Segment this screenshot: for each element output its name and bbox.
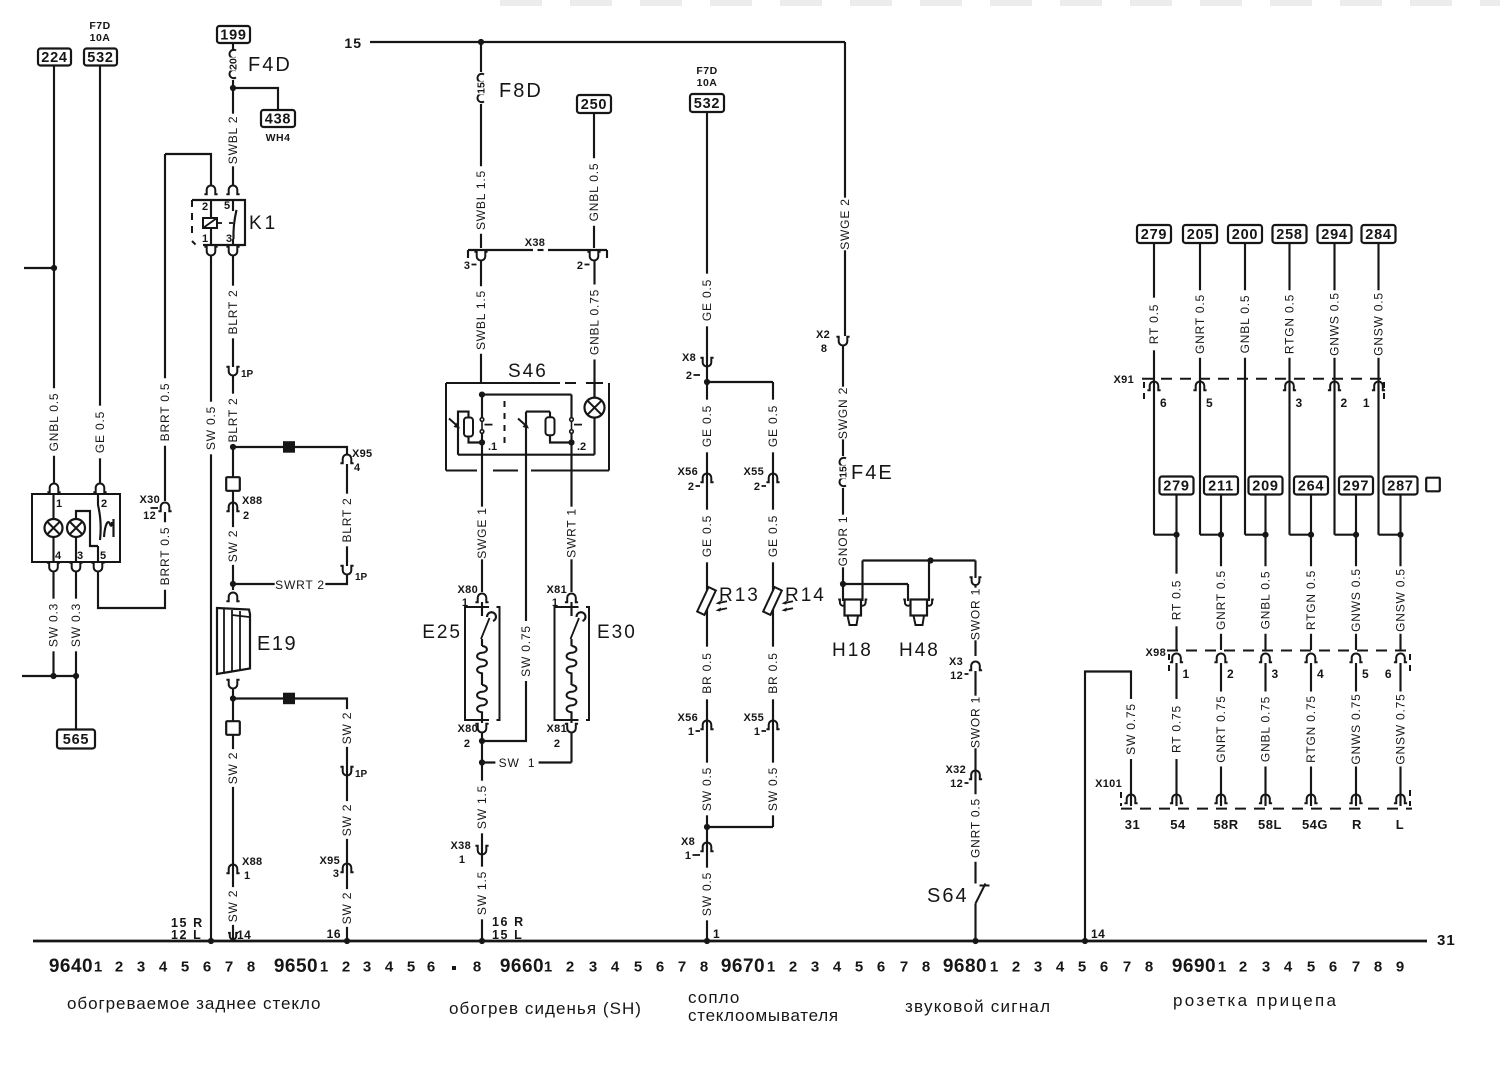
- svg-text:7: 7: [900, 959, 908, 976]
- wire SW 1 crossover: [479, 759, 485, 765]
- svg-text:SW 0.75: SW 0.75: [519, 625, 533, 677]
- wire SW 2 right branch: [346, 706, 348, 941]
- connector X8 pin 1: [700, 843, 713, 852]
- svg-text:8: 8: [247, 959, 255, 976]
- E19 top pin: [226, 592, 239, 601]
- wire GNSW 0.5 to X98 pin 6: [1399, 535, 1401, 650]
- wire BR 0.5 left: [700, 647, 714, 700]
- wire from F4D junction: [232, 80, 234, 118]
- connector X91 pin 1: [1372, 381, 1385, 390]
- wire SW 0.3 right: [75, 571, 77, 676]
- S46 indicator lamp: [593, 383, 595, 398]
- connector X80 pin 1: [475, 594, 488, 603]
- wire RT 0.75 to X101: [1175, 663, 1177, 806]
- svg-text:GNRT 0.5: GNRT 0.5: [1214, 570, 1228, 630]
- svg-text:5: 5: [1078, 959, 1086, 976]
- S46 switch 2 contact: [570, 395, 572, 418]
- terminal box 297 second row: [1339, 477, 1373, 495]
- svg-text:SWBL 1.5: SWBL 1.5: [474, 290, 488, 350]
- connector X101 pin col 3: [1259, 794, 1272, 803]
- svg-text:6: 6: [427, 959, 435, 976]
- wire SWBL 1.5 to S46: [480, 261, 482, 383]
- wire SWRT 1 from S46: [570, 471, 572, 593]
- svg-text:SWOR 1: SWOR 1: [969, 696, 983, 748]
- ground terminal box 565: [57, 730, 95, 749]
- svg-text:9690: 9690: [1172, 956, 1216, 977]
- svg-text:X81: X81: [547, 584, 567, 596]
- svg-text:.1: .1: [488, 441, 497, 453]
- svg-text:58R: 58R: [1213, 817, 1238, 832]
- svg-text:7: 7: [225, 959, 233, 976]
- svg-text:14: 14: [237, 928, 251, 942]
- svg-text:E30: E30: [597, 622, 637, 643]
- wire SW 0.75 from S46 middle: [482, 471, 526, 742]
- svg-text:9650: 9650: [274, 956, 318, 977]
- svg-text:K1: K1: [249, 213, 278, 234]
- wire label SW 2 below square: [226, 749, 240, 787]
- wire SWOR 1 lower: [974, 671, 976, 884]
- wire SWOR 1 upper: [974, 561, 976, 579]
- S46 middle output wire: [525, 412, 527, 471]
- wire corner to relay K1: [165, 154, 211, 186]
- svg-text:532: 532: [694, 96, 721, 112]
- wire GNBL 0.5 from box 200: [1244, 243, 1246, 535]
- svg-text:X30: X30: [140, 494, 160, 506]
- svg-text:GNOR 1: GNOR 1: [836, 516, 850, 567]
- svg-text:1: 1: [990, 959, 998, 976]
- connector X81 pin 2: [565, 724, 578, 733]
- svg-text:SW 1.5: SW 1.5: [475, 785, 489, 829]
- junction below E19: [230, 695, 236, 701]
- connector X91 pin 6: [1147, 381, 1160, 390]
- svg-text:8: 8: [821, 343, 827, 355]
- wire splice to X95/4: [295, 447, 347, 455]
- svg-text:стеклоомывателя: стеклоомывателя: [688, 1006, 839, 1025]
- connector X91 pin 2: [1328, 381, 1341, 390]
- E19 bottom pin: [226, 680, 239, 689]
- svg-text:GNWS 0.5: GNWS 0.5: [1349, 568, 1363, 632]
- svg-text:3: 3: [363, 959, 371, 976]
- svg-text:8: 8: [700, 959, 708, 976]
- connector X55 pin 1: [766, 721, 779, 730]
- connector X38 pin 3: [474, 252, 487, 261]
- wire SW 1.5 below junction: [475, 781, 489, 834]
- connector 1P right: [340, 566, 353, 575]
- svg-text:R13: R13: [719, 585, 760, 606]
- svg-text:4: 4: [833, 959, 842, 976]
- connector X38 line: [468, 249, 533, 251]
- E25 heater coils: [481, 639, 483, 646]
- junction washer split: [704, 379, 710, 385]
- terminal box 438: [261, 110, 295, 127]
- svg-text:211: 211: [1208, 479, 1234, 495]
- svg-text:SW 2: SW 2: [226, 752, 240, 785]
- svg-text:15: 15: [476, 82, 488, 94]
- svg-text:10A: 10A: [90, 32, 111, 44]
- svg-text:2: 2: [688, 481, 694, 493]
- svg-text:31: 31: [1125, 817, 1140, 832]
- svg-text:SW 0.5: SW 0.5: [700, 767, 714, 811]
- switch contact arm: [98, 494, 101, 540]
- svg-text:205: 205: [1187, 227, 1214, 243]
- pin 3 connector: [69, 563, 82, 572]
- svg-text:9640: 9640: [49, 956, 93, 977]
- svg-text:SW 0.5: SW 0.5: [204, 406, 218, 450]
- svg-text:1: 1: [688, 726, 694, 738]
- svg-text:X56: X56: [678, 466, 698, 478]
- svg-text:438: 438: [265, 112, 292, 128]
- ground collector wire: [22, 675, 76, 677]
- svg-text:200: 200: [1232, 227, 1259, 243]
- svg-text:8: 8: [473, 959, 481, 976]
- svg-text:GE 0.5: GE 0.5: [700, 515, 714, 557]
- wire GE 0.5 to R13: [700, 510, 714, 563]
- connector X38 pin 1: [475, 846, 488, 855]
- terminal box 200 top row: [1228, 225, 1262, 243]
- svg-text:X80: X80: [458, 584, 478, 596]
- svg-text:S46: S46: [508, 361, 548, 382]
- svg-text:RT 0.5: RT 0.5: [1170, 580, 1184, 620]
- svg-text:F7D: F7D: [696, 65, 717, 77]
- pin 5 connector: [91, 563, 104, 572]
- svg-text:9680: 9680: [943, 956, 987, 977]
- svg-text:250: 250: [581, 97, 608, 113]
- seat heater element E25 box: [465, 607, 500, 720]
- svg-text:SW 2: SW 2: [340, 712, 354, 745]
- svg-text:RTGN 0.5: RTGN 0.5: [1304, 570, 1318, 630]
- terminal box 209 second row: [1249, 477, 1283, 495]
- connector X98 pin 4: [1304, 653, 1317, 662]
- svg-text:199: 199: [220, 28, 247, 44]
- svg-text:2: 2: [1341, 396, 1348, 410]
- svg-text:E25: E25: [422, 622, 462, 643]
- svg-text:BRRT 0.5: BRRT 0.5: [158, 527, 172, 586]
- connector X95 pin 4: [340, 455, 353, 464]
- svg-text:SWBL 1.5: SWBL 1.5: [474, 170, 488, 230]
- wire SWRT 2: [236, 575, 347, 584]
- connector X3 pin 12: [969, 662, 982, 671]
- svg-text:X8: X8: [681, 836, 695, 848]
- svg-text:F4E: F4E: [851, 462, 894, 484]
- wire SWGE 1 from S46: [481, 471, 483, 593]
- wire GNWS 0.75 to X101: [1355, 663, 1357, 806]
- svg-text:GNSW 0.5: GNSW 0.5: [1372, 292, 1386, 356]
- svg-text:BRRT 0.5: BRRT 0.5: [158, 383, 172, 442]
- wire GNBL 0.5 to X38: [593, 113, 595, 248]
- heated rear window switch unit box: [32, 494, 120, 562]
- svg-text:X88: X88: [242, 856, 262, 868]
- wire label GE 0.5 left: [700, 400, 714, 453]
- terminal box 279 second row: [1160, 477, 1194, 495]
- svg-text:S64: S64: [927, 885, 969, 907]
- wire SW 0.5 to bus: [700, 868, 714, 921]
- svg-text:1: 1: [754, 726, 760, 738]
- spare connector square: [1426, 478, 1440, 492]
- svg-text:3: 3: [1272, 667, 1279, 681]
- svg-text:сопло: сопло: [688, 988, 740, 1007]
- svg-text:X38: X38: [451, 840, 471, 852]
- svg-text:SW 2: SW 2: [226, 530, 240, 563]
- svg-text:15: 15: [344, 35, 362, 51]
- svg-text:12: 12: [950, 778, 963, 790]
- svg-text:R14: R14: [785, 585, 826, 606]
- wire label SW 2 lower: [340, 889, 354, 927]
- wire BLRT 2 to 1P: [346, 464, 348, 566]
- svg-text:5: 5: [224, 200, 230, 212]
- relay K1 coil: [210, 200, 212, 218]
- connector X98 pin 5: [1349, 653, 1362, 662]
- terminal box 532 right: [690, 94, 724, 112]
- svg-text:BLRT 2: BLRT 2: [226, 397, 240, 442]
- svg-text:SWBL 2: SWBL 2: [226, 116, 240, 164]
- svg-text:1P: 1P: [241, 369, 254, 380]
- fuse F8D: [480, 42, 482, 72]
- E25 thermal switch: [481, 602, 483, 616]
- indicator lamp 2 in switch: [67, 519, 85, 537]
- connector 1P lower right: [340, 767, 353, 776]
- fuse F4D: [232, 43, 234, 51]
- svg-text:SW 0.3: SW 0.3: [47, 603, 61, 647]
- svg-text:565: 565: [63, 732, 90, 748]
- connector X56 pin 2: [700, 474, 713, 483]
- wire BRRT 0.5 from pin 5 to X30: [98, 512, 165, 608]
- terminal box 532 left: [84, 49, 117, 66]
- svg-text:7: 7: [1352, 959, 1360, 976]
- connector X8 pin 2: [700, 358, 713, 367]
- wire GNSW 0.75 to X101: [1399, 663, 1401, 806]
- svg-text:SWGE 2: SWGE 2: [838, 198, 852, 249]
- svg-text:4: 4: [354, 462, 361, 474]
- svg-text:BLRT 2: BLRT 2: [226, 289, 240, 334]
- svg-text:GNSW 0.75: GNSW 0.75: [1394, 693, 1408, 764]
- svg-text:X8: X8: [682, 352, 696, 364]
- svg-text:GE 0.5: GE 0.5: [766, 515, 780, 557]
- svg-text:SWRT 2: SWRT 2: [275, 578, 325, 592]
- svg-text:16 R: 16 R: [492, 915, 525, 929]
- connector X101 pin col 6: [1394, 794, 1407, 803]
- svg-text:1: 1: [1363, 396, 1370, 410]
- wire RT 0.5 from box 279: [1153, 243, 1155, 535]
- svg-text:R: R: [1352, 817, 1362, 832]
- E30 heater coils: [570, 639, 572, 646]
- svg-text:SW 0.5: SW 0.5: [700, 872, 714, 916]
- svg-text:GE 0.5: GE 0.5: [93, 411, 107, 453]
- terminal box 199: [217, 26, 250, 43]
- junction node to X95 branch: [230, 444, 236, 450]
- svg-text:1: 1: [1183, 667, 1190, 681]
- S46 adjustment arrow 1: [449, 419, 458, 427]
- connector X101 pin 31: [1124, 794, 1137, 803]
- svg-text:SWGE 1: SWGE 1: [475, 507, 489, 558]
- svg-text:GNRT 0.5: GNRT 0.5: [1193, 294, 1207, 354]
- svg-text:5: 5: [1206, 396, 1213, 410]
- svg-text:F4D: F4D: [248, 54, 292, 76]
- svg-text:4: 4: [611, 959, 620, 976]
- connector X91 dashed line: [1142, 378, 1386, 380]
- svg-text:2: 2: [342, 959, 350, 976]
- svg-text:4: 4: [159, 959, 168, 976]
- svg-text:1: 1: [202, 233, 208, 245]
- svg-text:3: 3: [77, 550, 83, 562]
- svg-text:6: 6: [877, 959, 885, 976]
- svg-text:12 L: 12 L: [171, 928, 202, 942]
- svg-text:12: 12: [143, 510, 156, 522]
- wire label GE 0.5 right: [766, 400, 780, 453]
- svg-text:1P: 1P: [355, 572, 368, 583]
- terminal box 205 top row: [1183, 225, 1217, 243]
- wire GNBL 0.5 to X98 pin 3: [1264, 535, 1266, 650]
- wire GE 0.5 to R14: [772, 470, 774, 827]
- svg-text:H18: H18: [832, 640, 873, 661]
- horn H48 body: [911, 600, 928, 616]
- svg-text:GNSW 0.5: GNSW 0.5: [1394, 568, 1408, 632]
- svg-text:1: 1: [544, 959, 552, 976]
- svg-text:2: 2: [464, 738, 470, 750]
- svg-text:31: 31: [1437, 932, 1456, 949]
- svg-text:GE 0.5: GE 0.5: [766, 405, 780, 447]
- svg-text:SW 2: SW 2: [226, 890, 240, 923]
- wire BLRT 2 below 1P: [232, 376, 234, 590]
- svg-text:9: 9: [1396, 959, 1404, 976]
- svg-text:7: 7: [1123, 959, 1131, 976]
- svg-text:SW 2: SW 2: [340, 892, 354, 925]
- bus pin for track 14: [228, 933, 238, 940]
- svg-text:2: 2: [566, 959, 574, 976]
- left stub branch on GNBL wire: [24, 267, 54, 269]
- svg-text:209: 209: [1252, 479, 1279, 495]
- svg-text:1: 1: [320, 959, 328, 976]
- svg-text:звуковой сигнал: звуковой сигнал: [905, 997, 1051, 1016]
- svg-text:GNWS 0.5: GNWS 0.5: [1328, 292, 1342, 356]
- svg-text:58L: 58L: [1258, 817, 1282, 832]
- connector X38 pin 2: [587, 252, 600, 261]
- svg-text:532: 532: [87, 50, 114, 66]
- fuse F4E: [839, 458, 846, 466]
- wire label SW 2 above E19: [226, 527, 240, 565]
- S46 bottom rail: [458, 454, 595, 456]
- terminal box 264 second row: [1294, 477, 1328, 495]
- S46 inner supply rail: [482, 394, 572, 396]
- inline connector square upper: [226, 477, 240, 491]
- svg-text:6: 6: [203, 959, 211, 976]
- horn H18 terminals: [842, 584, 844, 601]
- svg-text:1: 1: [1218, 959, 1226, 976]
- wire GE 0.5 from 532 to lamp unit: [99, 65, 101, 484]
- frame top dashed edge: [500, 0, 542, 6]
- svg-text:15: 15: [838, 466, 850, 478]
- terminal box 258 top row: [1273, 225, 1307, 243]
- connector X101 pin col 1: [1170, 794, 1183, 803]
- wire RTGN 0.5 to X98 pin 4: [1310, 535, 1312, 650]
- svg-text:F8D: F8D: [499, 80, 543, 102]
- svg-text:3: 3: [333, 868, 339, 880]
- svg-text:X95: X95: [320, 855, 340, 867]
- svg-text:6: 6: [1385, 667, 1392, 681]
- svg-text:4: 4: [1056, 959, 1065, 976]
- svg-text:GNBL 0.75: GNBL 0.75: [1259, 696, 1273, 762]
- svg-text:297: 297: [1343, 479, 1370, 495]
- svg-text:SW 0.5: SW 0.5: [766, 767, 780, 811]
- wire GNOR 1: [842, 488, 844, 584]
- terminal 15 feed line: [370, 41, 845, 43]
- connector X101 pin col 2: [1214, 794, 1227, 803]
- svg-text:H48: H48: [899, 640, 940, 661]
- svg-text:GNRT 0.5: GNRT 0.5: [969, 798, 983, 858]
- svg-text:5: 5: [100, 550, 106, 562]
- wire to splice: [233, 446, 283, 448]
- relay K1 contact arm: [232, 200, 234, 211]
- svg-text:X55: X55: [744, 466, 764, 478]
- wire BR 0.5 right: [766, 647, 780, 700]
- wire RT 0.5 to X98 pin 1: [1175, 535, 1177, 650]
- wire GNSW 0.5 from box 284: [1377, 243, 1379, 535]
- wire SW 0.3 left: [52, 571, 54, 676]
- wire BLRT 2 from K1 pin3: [232, 255, 234, 367]
- svg-text:2: 2: [115, 959, 123, 976]
- connector X80 pin 2: [475, 724, 488, 733]
- svg-text:RTGN 0.5: RTGN 0.5: [1283, 294, 1297, 354]
- switch actuator squiggle: [104, 519, 114, 537]
- svg-text:GNRT 0.75: GNRT 0.75: [1214, 695, 1228, 762]
- svg-text:224: 224: [41, 50, 68, 66]
- connector X98 pin 1: [1170, 653, 1183, 662]
- connector X98 dashed line: [1167, 650, 1412, 652]
- wire lower splice to SW2 branch: [295, 699, 347, 707]
- svg-text:15 L: 15 L: [492, 928, 523, 942]
- horn feed to H48: [843, 583, 908, 585]
- svg-text:X101: X101: [1095, 778, 1122, 790]
- indicator lamp 1 in switch: [52, 494, 54, 519]
- svg-text:RT 0.5: RT 0.5: [1147, 304, 1161, 344]
- svg-text:2: 2: [754, 481, 760, 493]
- svg-text:2: 2: [101, 498, 107, 510]
- svg-text:1: 1: [459, 854, 465, 866]
- svg-text:1: 1: [713, 927, 720, 941]
- svg-text:1P: 1P: [355, 769, 368, 780]
- svg-text:2: 2: [202, 201, 208, 213]
- connector X55 pin 2: [766, 474, 779, 483]
- connector 1P upper: [226, 367, 239, 376]
- svg-text:1: 1: [685, 850, 691, 862]
- svg-text:8: 8: [922, 959, 930, 976]
- wire SWGE 2 from terminal 15: [844, 42, 846, 336]
- wire GNRT 0.5 to X98 pin 2: [1220, 535, 1222, 650]
- S46 resistor 2: [549, 412, 551, 418]
- inline connector square lower: [226, 721, 240, 735]
- horn bridge rail: [861, 561, 863, 602]
- S46 dashed separator: [504, 401, 506, 444]
- svg-text:2: 2: [789, 959, 797, 976]
- connector X81 pin 1: [565, 594, 578, 603]
- svg-text:2: 2: [1012, 959, 1020, 976]
- svg-text:279: 279: [1163, 479, 1190, 495]
- svg-text:2: 2: [577, 260, 583, 272]
- svg-text:X3: X3: [949, 656, 963, 668]
- connector X30 pin 12: [158, 502, 171, 511]
- svg-text:3: 3: [1262, 959, 1270, 976]
- terminal box 294 top row: [1318, 225, 1352, 243]
- connector X91 pin 3: [1283, 381, 1296, 390]
- svg-text:SW 1.5: SW 1.5: [475, 871, 489, 915]
- terminal box 224: [38, 49, 71, 66]
- svg-text:16: 16: [327, 927, 341, 941]
- wire GNRT 0.5: [969, 794, 983, 862]
- svg-text:GE 0.5: GE 0.5: [700, 405, 714, 447]
- svg-text:.2: .2: [577, 441, 586, 453]
- svg-text:6: 6: [1100, 959, 1108, 976]
- svg-text:258: 258: [1276, 227, 1303, 243]
- connector X2 pin 8: [836, 337, 849, 346]
